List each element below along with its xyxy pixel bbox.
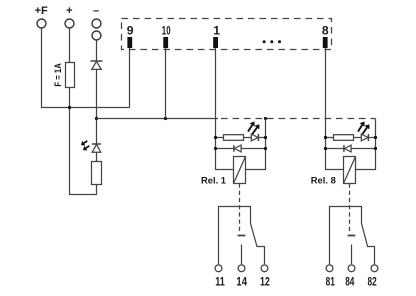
svg-text:14: 14 xyxy=(236,275,247,289)
svg-text:11: 11 xyxy=(215,275,225,289)
svg-text:+F: +F xyxy=(35,5,48,17)
svg-text:Rel. 1: Rel. 1 xyxy=(201,175,226,186)
svg-text:12: 12 xyxy=(260,275,270,289)
svg-text:84: 84 xyxy=(345,275,354,289)
svg-text:1: 1 xyxy=(213,23,220,37)
svg-text:10: 10 xyxy=(162,23,171,37)
svg-text:Rel. 8: Rel. 8 xyxy=(311,175,336,186)
svg-text:81: 81 xyxy=(326,275,335,289)
svg-text:–: – xyxy=(93,5,99,17)
svg-text:82: 82 xyxy=(368,275,377,289)
svg-text:+: + xyxy=(66,5,72,17)
svg-text:9: 9 xyxy=(127,23,134,37)
svg-text:F = 1A: F = 1A xyxy=(53,63,64,86)
svg-text:8: 8 xyxy=(322,23,329,37)
